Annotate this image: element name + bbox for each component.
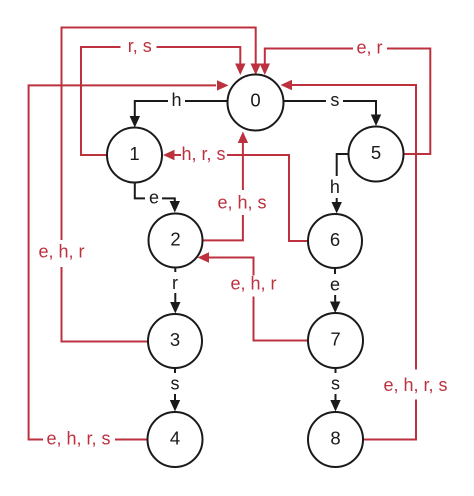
svg-text:e, h, r, s: e, h, r, s <box>46 429 110 449</box>
svg-text:3: 3 <box>170 329 180 350</box>
svg-text:1: 1 <box>129 143 139 164</box>
svg-text:e, h, r: e, h, r <box>38 242 84 262</box>
svg-text:7: 7 <box>330 329 340 350</box>
svg-text:0: 0 <box>250 90 260 111</box>
svg-text:e, r: e, r <box>356 38 382 58</box>
svg-text:h: h <box>171 90 181 110</box>
svg-text:s: s <box>171 374 180 394</box>
svg-text:5: 5 <box>371 142 381 163</box>
svg-text:h, r, s: h, r, s <box>181 144 225 164</box>
svg-text:e, h, r, s: e, h, r, s <box>383 375 447 395</box>
svg-text:6: 6 <box>330 229 340 250</box>
svg-text:e, h, s: e, h, s <box>217 193 266 213</box>
svg-text:e: e <box>149 188 159 208</box>
svg-text:8: 8 <box>330 428 340 449</box>
svg-text:4: 4 <box>170 428 180 449</box>
svg-text:e: e <box>330 275 340 295</box>
svg-text:s: s <box>330 90 339 110</box>
svg-text:2: 2 <box>170 229 180 250</box>
svg-text:h: h <box>330 177 340 197</box>
svg-text:r, s: r, s <box>128 36 152 56</box>
svg-text:e, h, r: e, h, r <box>230 274 276 294</box>
svg-text:r: r <box>172 273 178 293</box>
svg-text:s: s <box>331 374 340 394</box>
